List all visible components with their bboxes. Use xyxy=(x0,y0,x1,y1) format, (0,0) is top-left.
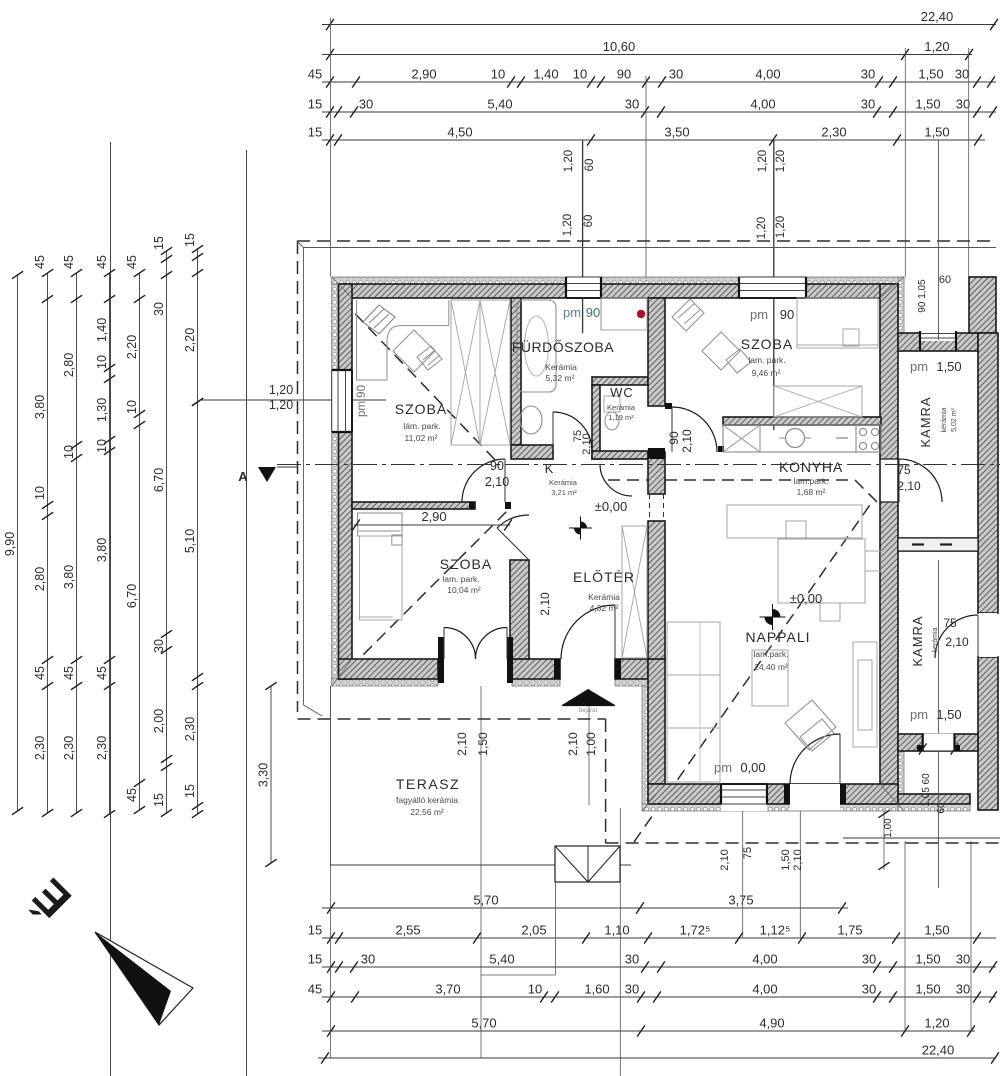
svg-text:SZOBA: SZOBA xyxy=(440,556,492,572)
svg-text:1,50: 1,50 xyxy=(936,707,961,722)
svg-text:10: 10 xyxy=(573,67,587,82)
svg-text:FÜRDŐSZOBA: FÜRDŐSZOBA xyxy=(512,338,614,355)
svg-text:pm: pm xyxy=(910,707,928,722)
svg-text:2,10: 2,10 xyxy=(719,849,731,870)
svg-text:1,50: 1,50 xyxy=(476,732,490,756)
svg-text:15: 15 xyxy=(308,125,322,140)
svg-text:10: 10 xyxy=(95,439,109,453)
svg-text:3,50: 3,50 xyxy=(664,125,689,140)
svg-text:lam.park.: lam.park. xyxy=(794,476,829,486)
svg-text:22,40: 22,40 xyxy=(922,1043,955,1058)
svg-text:1,50: 1,50 xyxy=(915,97,940,112)
svg-text:4,00: 4,00 xyxy=(752,952,777,967)
svg-text:lam. park.: lam. park. xyxy=(442,574,479,584)
svg-text:KONYHA: KONYHA xyxy=(779,459,843,475)
svg-text:2,80: 2,80 xyxy=(62,353,76,377)
svg-text:30: 30 xyxy=(152,639,166,653)
svg-text:10: 10 xyxy=(125,400,139,414)
svg-text:4,50: 4,50 xyxy=(447,125,472,140)
svg-text:1,20: 1,20 xyxy=(775,150,787,172)
svg-text:45: 45 xyxy=(308,982,322,997)
svg-text:3,80: 3,80 xyxy=(62,565,76,589)
svg-text:1,10: 1,10 xyxy=(604,923,629,938)
svg-text:30: 30 xyxy=(862,952,876,967)
svg-text:10,04 m²: 10,04 m² xyxy=(447,585,481,595)
svg-text:TERASZ: TERASZ xyxy=(396,776,460,792)
svg-text:1,20: 1,20 xyxy=(775,216,787,238)
svg-text:90: 90 xyxy=(667,431,681,445)
svg-text:lam. park.: lam. park. xyxy=(748,355,785,365)
svg-text:1,30: 1,30 xyxy=(95,398,109,422)
svg-text:Kerámia: Kerámia xyxy=(588,592,620,602)
svg-text:pm: pm xyxy=(910,359,928,374)
svg-text:1,50: 1,50 xyxy=(924,923,949,938)
svg-text:15: 15 xyxy=(152,236,166,250)
svg-text:10: 10 xyxy=(62,445,76,459)
svg-text:2,20: 2,20 xyxy=(125,335,139,359)
svg-text:5,02 m²: 5,02 m² xyxy=(951,407,958,431)
svg-text:pm: pm xyxy=(714,760,732,775)
svg-text:60: 60 xyxy=(936,802,947,814)
svg-text:10: 10 xyxy=(95,355,109,369)
svg-text:1,05 60: 1,05 60 xyxy=(921,773,932,807)
svg-text:1,50: 1,50 xyxy=(915,982,940,997)
svg-text:0,00: 0,00 xyxy=(740,760,765,775)
svg-text:Kerámia: Kerámia xyxy=(545,362,577,372)
svg-text:1,50: 1,50 xyxy=(936,359,961,374)
svg-text:2,10: 2,10 xyxy=(455,732,469,756)
svg-text:1,40: 1,40 xyxy=(533,67,558,82)
svg-text:30: 30 xyxy=(956,97,970,112)
svg-text:45: 45 xyxy=(308,67,322,82)
svg-text:22,56 m²: 22,56 m² xyxy=(410,807,444,817)
svg-text:60: 60 xyxy=(939,274,951,286)
svg-text:1,50: 1,50 xyxy=(780,849,792,870)
svg-text:1,20: 1,20 xyxy=(269,383,293,397)
svg-text:90: 90 xyxy=(780,307,794,322)
svg-text:NAPPALI: NAPPALI xyxy=(745,629,810,645)
svg-text:9,90: 9,90 xyxy=(3,532,17,556)
svg-text:2,10: 2,10 xyxy=(566,732,580,756)
svg-text:1,12⁵: 1,12⁵ xyxy=(760,923,791,938)
svg-text:5,32 m²: 5,32 m² xyxy=(546,373,575,383)
svg-text:5,70: 5,70 xyxy=(471,1016,496,1031)
svg-text:5,40: 5,40 xyxy=(489,952,514,967)
svg-text:90: 90 xyxy=(617,67,631,82)
svg-text:4,00: 4,00 xyxy=(750,97,775,112)
svg-text:30: 30 xyxy=(625,97,639,112)
svg-text:pm 90: pm 90 xyxy=(356,385,368,417)
svg-text:1,50: 1,50 xyxy=(924,125,949,140)
svg-text:6,70: 6,70 xyxy=(152,468,166,492)
svg-text:1,68 m²: 1,68 m² xyxy=(797,487,826,497)
svg-text:K: K xyxy=(545,461,554,476)
svg-text:10: 10 xyxy=(491,67,505,82)
svg-text:30: 30 xyxy=(955,67,969,82)
svg-text:Kerámia: Kerámia xyxy=(549,478,578,487)
svg-text:2,05: 2,05 xyxy=(521,923,546,938)
svg-text:WC: WC xyxy=(610,385,634,400)
svg-text:A: A xyxy=(238,469,248,484)
svg-text:2,30: 2,30 xyxy=(95,736,109,760)
svg-text:lam.park.: lam.park. xyxy=(754,649,789,659)
svg-text:10: 10 xyxy=(528,982,542,997)
svg-text:60: 60 xyxy=(583,215,595,228)
svg-text:3,75: 3,75 xyxy=(728,893,753,908)
svg-text:10: 10 xyxy=(33,486,47,500)
svg-text:45: 45 xyxy=(125,788,139,802)
svg-text:45: 45 xyxy=(125,255,139,269)
svg-text:1,20: 1,20 xyxy=(924,39,949,54)
svg-text:Kerámia: Kerámia xyxy=(607,403,636,412)
svg-text:90 1,05: 90 1,05 xyxy=(917,279,928,313)
svg-text:30: 30 xyxy=(862,982,876,997)
svg-text:1,20: 1,20 xyxy=(757,150,769,172)
svg-text:3,80: 3,80 xyxy=(33,395,47,419)
svg-text:3,70: 3,70 xyxy=(435,982,460,997)
svg-text:90: 90 xyxy=(490,459,504,473)
svg-text:4,00: 4,00 xyxy=(755,67,780,82)
svg-text:1,75: 1,75 xyxy=(837,923,862,938)
svg-text:SZOBA: SZOBA xyxy=(741,336,793,352)
svg-text:1,50: 1,50 xyxy=(918,67,943,82)
svg-text:24,40 m²: 24,40 m² xyxy=(754,662,788,672)
svg-text:30: 30 xyxy=(956,982,970,997)
svg-text:pm: pm xyxy=(563,305,581,320)
svg-text:11,02 m²: 11,02 m² xyxy=(405,433,438,443)
svg-text:1,19 m²: 1,19 m² xyxy=(608,413,634,422)
svg-text:KAMRA: KAMRA xyxy=(918,396,933,447)
svg-text:2,10: 2,10 xyxy=(581,433,593,454)
svg-text:1,20: 1,20 xyxy=(756,217,768,239)
svg-text:9,46 m²: 9,46 m² xyxy=(752,368,781,378)
svg-text:45: 45 xyxy=(33,666,47,680)
svg-text:2,90: 2,90 xyxy=(411,67,436,82)
svg-text:1,72⁵: 1,72⁵ xyxy=(680,923,711,938)
svg-text:22,40: 22,40 xyxy=(921,9,954,24)
svg-text:3,80: 3,80 xyxy=(95,538,109,562)
svg-text:1,20: 1,20 xyxy=(562,214,574,236)
svg-text:bejárat: bejárat xyxy=(579,708,598,714)
svg-text:30: 30 xyxy=(152,302,166,316)
svg-text:SZOBA: SZOBA xyxy=(395,401,447,417)
svg-text:2,55: 2,55 xyxy=(395,923,420,938)
svg-text:15: 15 xyxy=(308,952,322,967)
svg-text:45: 45 xyxy=(62,255,76,269)
svg-text:1,00: 1,00 xyxy=(883,818,894,838)
svg-text:kerámia: kerámia xyxy=(932,627,939,652)
svg-text:1,20: 1,20 xyxy=(269,398,293,412)
svg-text:1,20: 1,20 xyxy=(924,1016,949,1031)
svg-text:3,30: 3,30 xyxy=(257,763,271,787)
svg-text:2,10: 2,10 xyxy=(538,592,552,616)
svg-text:30: 30 xyxy=(956,952,970,967)
svg-text:90: 90 xyxy=(586,305,600,320)
svg-text:2,80: 2,80 xyxy=(33,567,47,591)
svg-text:pm: pm xyxy=(750,307,768,322)
svg-text:15: 15 xyxy=(183,784,197,798)
svg-text:15: 15 xyxy=(152,793,166,807)
svg-text:2,30: 2,30 xyxy=(62,736,76,760)
svg-text:1,50: 1,50 xyxy=(915,952,940,967)
svg-text:6,70: 6,70 xyxy=(125,584,139,608)
svg-text:45: 45 xyxy=(33,255,47,269)
svg-text:4,90: 4,90 xyxy=(759,1016,784,1031)
svg-text:2,30: 2,30 xyxy=(821,125,846,140)
svg-text:30: 30 xyxy=(625,952,639,967)
svg-text:±0,00: ±0,00 xyxy=(790,591,822,606)
svg-text:lám. park.: lám. park. xyxy=(403,421,440,431)
svg-text:30: 30 xyxy=(861,97,875,112)
svg-text:45: 45 xyxy=(95,255,109,269)
svg-text:1,00: 1,00 xyxy=(584,732,598,756)
svg-text:2,10: 2,10 xyxy=(897,479,921,493)
svg-text:2,30: 2,30 xyxy=(183,717,197,741)
svg-text:fagyálló kerámia: fagyálló kerámia xyxy=(396,795,458,805)
svg-text:30: 30 xyxy=(625,982,639,997)
svg-text:75: 75 xyxy=(742,847,754,859)
svg-text:2,10: 2,10 xyxy=(945,635,969,649)
svg-text:2,90: 2,90 xyxy=(421,509,446,524)
svg-text:±0,00: ±0,00 xyxy=(595,499,627,514)
svg-text:2,10: 2,10 xyxy=(485,475,509,489)
svg-text:2,30: 2,30 xyxy=(33,736,47,760)
svg-text:5,40: 5,40 xyxy=(487,97,512,112)
svg-text:4,32 m²: 4,32 m² xyxy=(590,603,619,613)
svg-text:1,40: 1,40 xyxy=(95,318,109,342)
svg-text:15: 15 xyxy=(308,923,322,938)
svg-text:30: 30 xyxy=(669,67,683,82)
svg-text:4,00: 4,00 xyxy=(752,982,777,997)
svg-text:ELŐTÉR: ELŐTÉR xyxy=(573,569,635,585)
svg-text:KAMRA: KAMRA xyxy=(910,615,925,666)
svg-text:1,20: 1,20 xyxy=(563,150,575,172)
svg-text:1,60: 1,60 xyxy=(584,982,609,997)
svg-text:3,21 m²: 3,21 m² xyxy=(551,488,577,497)
svg-text:2,00: 2,00 xyxy=(152,709,166,733)
svg-text:75: 75 xyxy=(943,616,957,630)
svg-text:2,10: 2,10 xyxy=(792,849,804,870)
svg-text:75: 75 xyxy=(897,463,911,477)
svg-text:5,10: 5,10 xyxy=(183,529,197,553)
svg-text:30: 30 xyxy=(861,67,875,82)
svg-text:45: 45 xyxy=(95,666,109,680)
svg-text:5,70: 5,70 xyxy=(473,893,498,908)
svg-text:30: 30 xyxy=(359,97,373,112)
svg-text:2,20: 2,20 xyxy=(183,328,197,352)
svg-text:10,60: 10,60 xyxy=(603,39,636,54)
svg-text:45: 45 xyxy=(62,666,76,680)
svg-text:15: 15 xyxy=(183,233,197,247)
svg-text:60: 60 xyxy=(584,159,596,172)
svg-text:2,10: 2,10 xyxy=(680,429,694,453)
svg-text:30: 30 xyxy=(361,952,375,967)
svg-text:15: 15 xyxy=(308,97,322,112)
svg-text:kerámia: kerámia xyxy=(941,407,948,432)
